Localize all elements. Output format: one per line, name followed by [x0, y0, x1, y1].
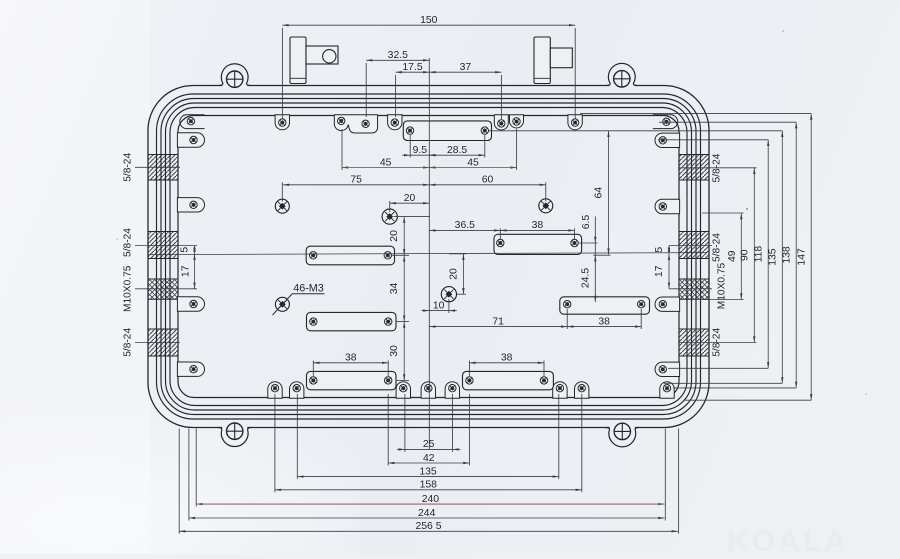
right slot	[560, 297, 650, 314]
bottom-left slot	[307, 371, 397, 389]
dimension 240	[196, 503, 664, 505]
svg-text:24.5: 24.5	[580, 268, 591, 288]
dimension 150	[282, 24, 575, 26]
enclosure wall line 2	[157, 94, 701, 419]
svg-text:135: 135	[419, 466, 437, 477]
svg-text:17.5: 17.5	[402, 62, 422, 73]
dimension 60	[429, 184, 546, 186]
right conduit M10X0.75	[679, 279, 709, 299]
boss lug top wall x=516.5 pairB	[510, 115, 524, 128]
svg-text:32.5: 32.5	[388, 50, 408, 61]
dimension 38 bottom-right slot	[469, 362, 544, 364]
svg-text:5/8-24: 5/8-24	[712, 233, 723, 262]
enclosure wall line 4	[166, 103, 692, 410]
enclosure outer wall	[148, 86, 709, 428]
svg-text:60: 60	[482, 175, 494, 186]
right conduit 5/8-24 #2	[679, 232, 709, 259]
dimension 42	[388, 462, 469, 464]
svg-text:240: 240	[422, 494, 440, 505]
right conduit 5/8-24 #3	[679, 329, 709, 356]
ext 45 left	[341, 129, 343, 170]
boss lug left wall y=369.2	[177, 362, 204, 376]
svg-text:256 5: 256 5	[415, 521, 441, 532]
mid-right slot	[494, 234, 582, 254]
svg-text:5/8-24: 5/8-24	[123, 328, 134, 357]
boss lug bottom wall x=452.3	[445, 382, 459, 399]
svg-text:28.5: 28.5	[447, 145, 467, 156]
boss lug bottom wall x=581.7	[575, 382, 589, 399]
boss lug bottom wall x=559.9	[553, 382, 567, 398]
screw bump top-left	[222, 84, 247, 87]
ext 38b	[640, 309, 642, 329]
ext 38c2	[387, 361, 389, 377]
ext 20 top	[389, 201, 391, 212]
dimension 20 top	[390, 202, 430, 204]
svg-text:135: 135	[768, 248, 779, 266]
boss lug left wall y=204.8	[177, 198, 204, 212]
boss lug right wall y=140.3	[655, 133, 680, 147]
left conduit 5/8-24 #3	[148, 329, 178, 356]
enclosure wall line 5	[170, 108, 687, 406]
lower-left slot	[307, 312, 397, 330]
corner lug top-left	[180, 115, 205, 129]
ext 36.5	[499, 228, 501, 239]
dimension 71	[429, 326, 567, 328]
svg-text:34: 34	[389, 283, 400, 295]
bottom-right slot	[463, 371, 554, 389]
dimension 158	[275, 489, 582, 491]
vertical dimension 20 right of center	[449, 253, 466, 255]
dimension 32.5	[366, 59, 429, 61]
ext 45 right	[516, 129, 518, 170]
svg-text:9.5: 9.5	[413, 145, 428, 156]
hole (10 dim)	[441, 287, 456, 302]
dimension 9.5	[410, 154, 429, 156]
boss lug top wall x=501.3 pairA	[494, 115, 508, 130]
dimension 147	[810, 114, 812, 401]
dimension 49	[740, 213, 742, 300]
svg-text:38: 38	[345, 353, 357, 364]
dimension 90	[753, 168, 755, 343]
vertical dimension stack 20/34/30	[394, 216, 431, 218]
dimension 45 right	[429, 167, 516, 169]
mid-left slot	[306, 246, 394, 265]
svg-text:64: 64	[594, 187, 605, 199]
dimension 64	[608, 131, 610, 255]
svg-text:30: 30	[389, 345, 400, 357]
callout 46-M3	[273, 294, 293, 315]
svg-text:36.5: 36.5	[455, 220, 475, 231]
right mounting tab	[534, 37, 550, 84]
svg-text:158: 158	[420, 480, 438, 491]
svg-text:147: 147	[797, 248, 808, 266]
dimension 138	[795, 122, 797, 388]
hole right of center (60 dim)	[539, 199, 553, 213]
svg-text:6.5: 6.5	[581, 215, 592, 230]
svg-text:45: 45	[380, 157, 392, 168]
left conduit M10X0.75	[148, 279, 178, 299]
left mounting tab	[290, 37, 306, 84]
corner screw bottom-left	[227, 423, 243, 439]
svg-text:5/8-24: 5/8-24	[712, 328, 723, 357]
dimension 25	[405, 448, 453, 450]
ext 38a	[574, 228, 576, 239]
top-center slot	[403, 121, 491, 141]
vertical center datum line	[428, 58, 430, 449]
boss lug top wall x=575.1	[568, 115, 582, 130]
svg-text:10: 10	[433, 300, 445, 311]
svg-text:5: 5	[654, 247, 665, 253]
boss lug right wall y=304.2	[655, 297, 680, 311]
boss lug right wall y=369.3	[655, 362, 680, 376]
svg-text:49: 49	[727, 250, 738, 262]
wide double boss top wall	[334, 115, 377, 133]
corner lug top-right	[653, 115, 678, 129]
right wall dim 5 and 17	[669, 245, 712, 247]
connector lines right side	[489, 130, 782, 132]
dimension 256.5	[179, 530, 678, 532]
boss lug left wall y=304	[177, 297, 204, 311]
extension lines top	[281, 28, 283, 119]
svg-text:5/8-24: 5/8-24	[712, 153, 723, 182]
boss lug left wall y=140	[177, 133, 204, 147]
ext 71	[566, 309, 568, 329]
svg-text:M10X0.75: M10X0.75	[717, 262, 728, 309]
dimension 244	[189, 517, 665, 519]
ext 10	[448, 299, 450, 313]
svg-text:M10X0.75: M10X0.75	[123, 265, 134, 312]
dimension 37	[429, 71, 501, 73]
dimension 135 right	[781, 131, 783, 383]
ext 38d2	[543, 361, 545, 377]
dimension 28.5	[429, 154, 485, 156]
enclosure wall line 3	[161, 99, 696, 415]
scan specks	[746, 208, 748, 210]
svg-text:5/8-24: 5/8-24	[123, 228, 134, 257]
dimension 10	[429, 310, 449, 312]
svg-text:5/8-24: 5/8-24	[123, 153, 134, 182]
boss lug bottom wall x=296.7	[290, 382, 304, 399]
dimension 75	[283, 184, 429, 186]
dimension 38 mid-right	[500, 229, 574, 231]
svg-text:138: 138	[782, 246, 793, 264]
ext 38d1	[468, 361, 470, 377]
dimension 36.5	[429, 229, 500, 231]
left conduit leaders	[135, 166, 180, 168]
hole 46-M3 callout	[275, 297, 289, 311]
screw bump top-right	[609, 84, 634, 87]
svg-text:38: 38	[532, 220, 544, 231]
corner screw bottom-right	[614, 423, 630, 439]
svg-text:118: 118	[753, 246, 764, 263]
boss lug bottom wall x=275	[268, 382, 282, 399]
svg-text:KOALA: KOALA	[727, 525, 849, 554]
svg-text:20: 20	[389, 230, 400, 242]
dimension 135 bottom	[297, 476, 559, 478]
boss lug bottom wall x=403.3	[396, 382, 410, 399]
svg-text:46-M3: 46-M3	[293, 283, 324, 295]
enclosure inner wall	[178, 116, 679, 398]
svg-text:75: 75	[350, 175, 362, 186]
dimension 45 left	[342, 167, 429, 169]
svg-text:25: 25	[423, 439, 435, 450]
dimension 6.5	[578, 242, 598, 244]
horizontal datum line through M3 holes	[148, 253, 707, 255]
dimension 38 right slot	[567, 326, 641, 328]
corner screw top-right	[614, 71, 630, 87]
ext 60	[545, 182, 547, 201]
ext 38c1	[312, 361, 314, 377]
extension lines slot row	[409, 135, 411, 158]
svg-text:20: 20	[404, 193, 416, 204]
left conduit 5/8-24 #1	[148, 155, 178, 181]
svg-text:17: 17	[654, 265, 665, 277]
boss lug top wall x=394.8	[388, 115, 402, 130]
svg-text:42: 42	[423, 453, 435, 464]
svg-text:45: 45	[467, 157, 479, 168]
svg-text:5: 5	[180, 247, 191, 253]
dimension 24.5	[594, 255, 596, 302]
boss lug bottom wall x=428.3	[421, 382, 435, 399]
svg-text:20: 20	[448, 268, 459, 280]
svg-text:90: 90	[740, 249, 751, 261]
svg-text:38: 38	[598, 316, 610, 327]
hole left of center (75 dim)	[275, 199, 289, 213]
boss lug bottom wall x=667	[660, 382, 674, 399]
right conduit leaders	[678, 167, 757, 169]
dimension 118	[767, 140, 769, 368]
svg-text:37: 37	[460, 62, 472, 73]
right conduit 5/8-24 #1	[679, 155, 709, 181]
corner screw top-left	[227, 71, 243, 87]
ext 75	[281, 182, 283, 201]
boss lug right wall y=206.5	[655, 199, 680, 213]
screw bump bottom-right	[610, 426, 635, 429]
dimension 17.5	[396, 71, 430, 73]
svg-text:150: 150	[420, 15, 438, 26]
dimension 38 bottom-left slot	[313, 362, 388, 364]
svg-text:38: 38	[501, 353, 513, 364]
bottom extension lines	[404, 394, 406, 452]
left wall dim 5 and 17	[135, 245, 197, 247]
hole (20 dim)	[382, 209, 397, 224]
left conduit 5/8-24 #2	[148, 232, 178, 259]
svg-text:71: 71	[492, 316, 504, 327]
svg-text:244: 244	[418, 508, 436, 519]
boss lug top wall x=282.3	[275, 115, 289, 130]
svg-text:17: 17	[181, 265, 192, 277]
screw bump bottom-left	[222, 426, 247, 429]
